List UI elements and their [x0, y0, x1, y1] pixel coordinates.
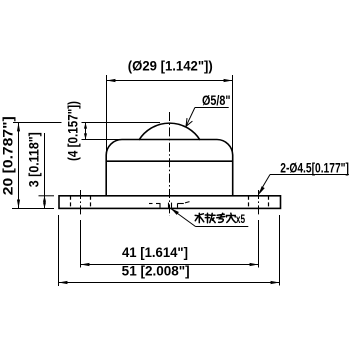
svg-text:41 [1.614"]: 41 [1.614"] — [122, 245, 188, 260]
svg-text:Ø5/8": Ø5/8" — [202, 92, 231, 108]
svg-text:(4 [0.157"]): (4 [0.157"]) — [66, 101, 81, 161]
svg-text:2-Ø4.5[0.177"]: 2-Ø4.5[0.177"] — [280, 160, 349, 176]
svg-text:(Ø29 [1.142"]): (Ø29 [1.142"]) — [128, 58, 213, 74]
svg-text:3 [0.118"]: 3 [0.118"] — [27, 132, 42, 187]
svg-text:51 [2.008"]: 51 [2.008"] — [122, 263, 190, 278]
svg-text:x5: x5 — [236, 212, 245, 226]
svg-text:20 [0.787"]: 20 [0.787"] — [0, 116, 16, 195]
